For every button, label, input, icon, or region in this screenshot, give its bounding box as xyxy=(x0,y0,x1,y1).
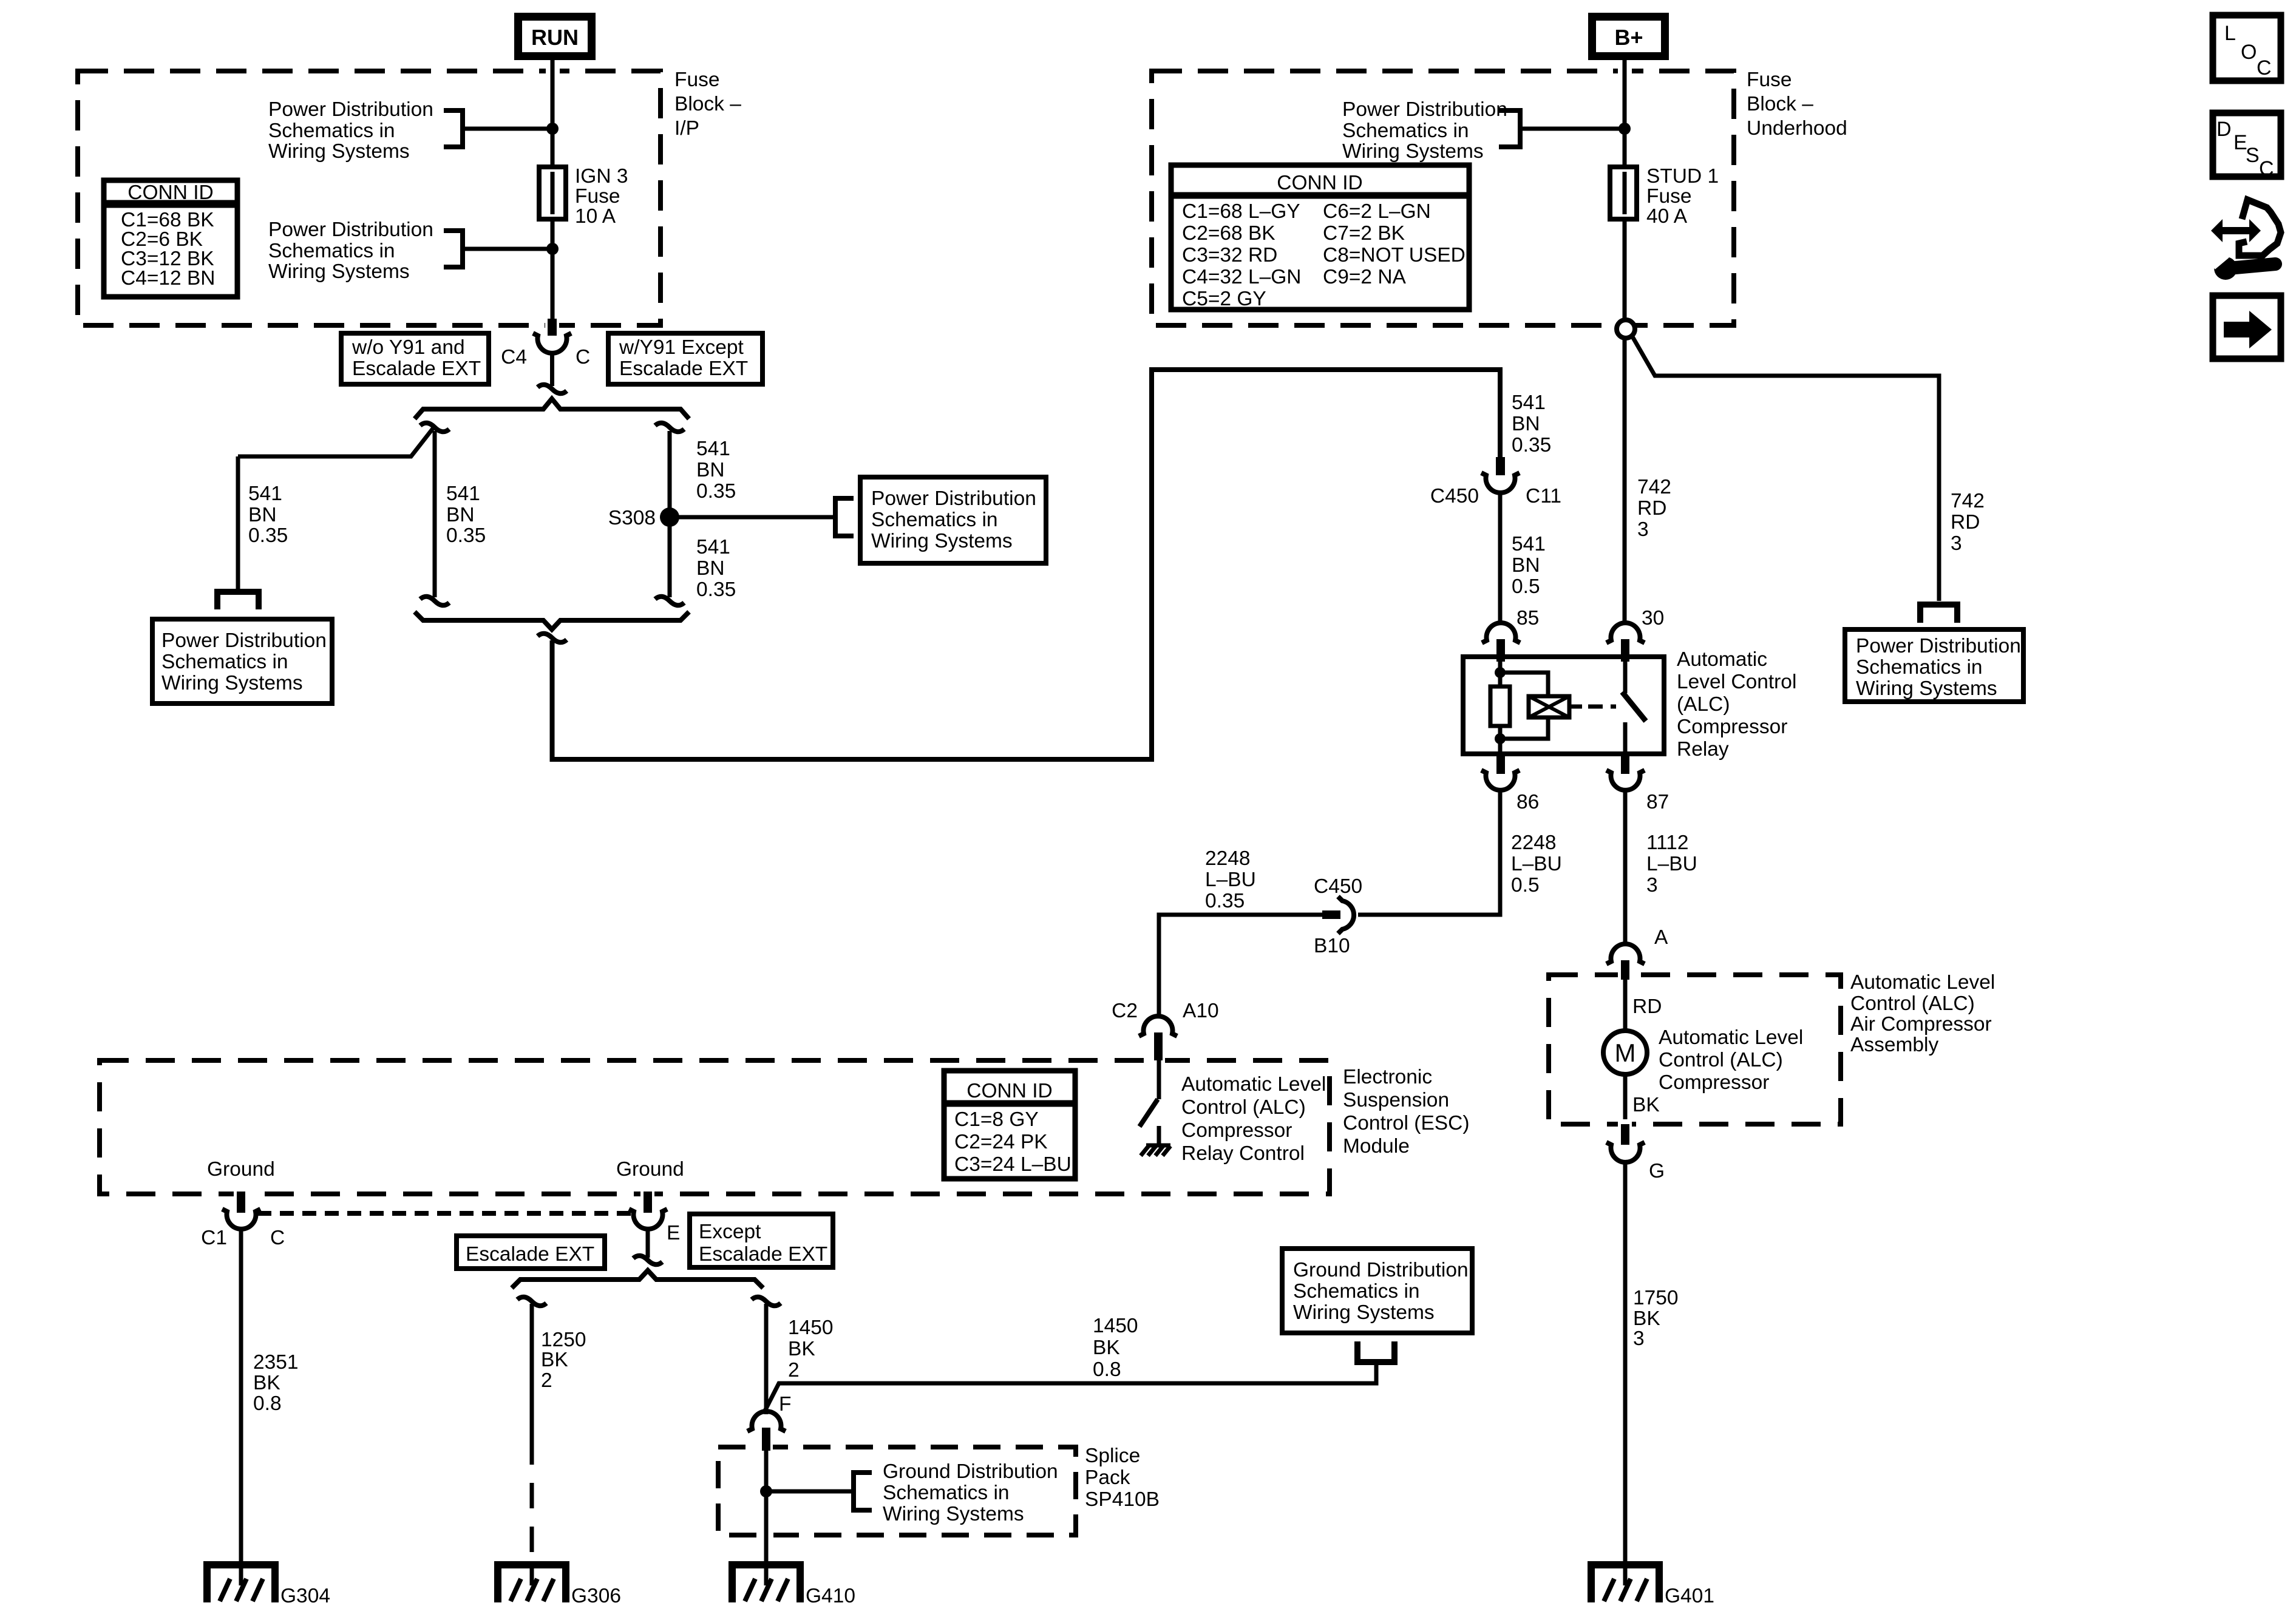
svg-text:2: 2 xyxy=(788,1359,800,1381)
ESC internal switch upper xyxy=(1157,1060,1161,1099)
svg-text:BK: BK xyxy=(1632,1094,1660,1116)
relay pin 87 cup xyxy=(1606,770,1645,790)
svg-text:Module: Module xyxy=(1343,1135,1410,1158)
svg-text:0.35: 0.35 xyxy=(1512,434,1551,456)
svg-text:F: F xyxy=(779,1393,791,1415)
svg-text:10 A: 10 A xyxy=(575,205,616,228)
relay switch upper contact xyxy=(1623,657,1628,693)
node junction dot 2 xyxy=(546,243,559,255)
wire 541 BN long run to C450 xyxy=(552,370,1501,759)
staple pointer to power distribution box xyxy=(217,592,259,609)
svg-text:C7=2 BK: C7=2 BK xyxy=(1323,222,1405,245)
staple pointer to ground distribution box xyxy=(1357,1341,1394,1362)
box ground distribution schematics xyxy=(1282,1249,1472,1333)
ESC internal switch lower stub xyxy=(1157,1126,1161,1145)
svg-text:Control (ALC): Control (ALC) xyxy=(1850,992,1975,1015)
svg-text:Wiring Systems: Wiring Systems xyxy=(871,530,1013,552)
svg-text:Ground: Ground xyxy=(616,1158,684,1181)
reference bracket 1 xyxy=(444,110,463,147)
wave top of 1250 branch xyxy=(517,1297,546,1306)
svg-text:BN: BN xyxy=(696,459,725,481)
connector C450 / B10 cup (open left) xyxy=(1338,897,1354,934)
svg-text:2351: 2351 xyxy=(253,1351,299,1374)
option box w/Y91 Except Escalade EXT xyxy=(608,333,763,384)
wire splice to reference bracket xyxy=(766,1490,851,1494)
svg-text:Relay: Relay xyxy=(1677,738,1729,761)
svg-text:85: 85 xyxy=(1517,607,1539,629)
connector F cup xyxy=(747,1411,786,1431)
svg-text:0.35: 0.35 xyxy=(446,524,486,547)
svg-text:742: 742 xyxy=(1637,476,1671,498)
svg-text:Schematics in: Schematics in xyxy=(1342,120,1469,142)
relay coil actuation stub and dashes xyxy=(1569,705,1582,709)
splice pack SP410B dashed box xyxy=(718,1447,1076,1535)
svg-text:Electronic: Electronic xyxy=(1343,1066,1432,1088)
relay coil branch wire upper xyxy=(1500,662,1548,696)
wire C450 to relay pin 85 xyxy=(1498,492,1503,625)
wire horizontal to far left branch with diagonal xyxy=(238,429,433,456)
wire G down to G401 xyxy=(1623,1162,1628,1565)
wire 1250 BK dashed part xyxy=(530,1439,534,1558)
svg-text:3: 3 xyxy=(1646,874,1658,897)
svg-text:CONN ID: CONN ID xyxy=(966,1080,1052,1102)
power symbol RUN xyxy=(518,17,592,56)
svg-text:(ALC): (ALC) xyxy=(1677,693,1730,716)
svg-text:IGN 3: IGN 3 xyxy=(575,165,628,188)
svg-text:C3=24 L–BU: C3=24 L–BU xyxy=(954,1153,1072,1176)
svg-text:Schematics in: Schematics in xyxy=(1856,656,1983,679)
svg-text:A: A xyxy=(1654,926,1668,949)
connector C2 / A10 stub xyxy=(1151,1056,1165,1065)
connector C4 / C stem wire xyxy=(550,353,554,386)
wire left ladder vertical 541 BN xyxy=(433,431,437,597)
svg-text:SP410B: SP410B xyxy=(1085,1488,1160,1511)
svg-text:40 A: 40 A xyxy=(1646,205,1688,228)
wire RUN to fuse IGN3 xyxy=(546,66,560,76)
svg-text:w/Y91 Except: w/Y91 Except xyxy=(619,336,744,359)
svg-text:2: 2 xyxy=(541,1369,552,1392)
svg-text:541: 541 xyxy=(696,438,730,460)
connector E cup xyxy=(629,1209,667,1229)
svg-text:0.35: 0.35 xyxy=(248,524,288,547)
ESC ground pin C1 stub xyxy=(234,1189,248,1199)
svg-text:Power Distribution: Power Distribution xyxy=(871,487,1036,510)
icon next-page arrow box xyxy=(2213,296,2281,359)
svg-text:Schematics in: Schematics in xyxy=(161,651,288,673)
svg-text:BK: BK xyxy=(1633,1307,1660,1330)
svg-text:Schematics in: Schematics in xyxy=(871,509,998,531)
svg-text:Escalade EXT: Escalade EXT xyxy=(466,1243,594,1266)
svg-text:Power Distribution: Power Distribution xyxy=(268,98,433,121)
svg-text:1750: 1750 xyxy=(1633,1287,1679,1309)
svg-text:Except: Except xyxy=(699,1221,761,1243)
svg-text:G410: G410 xyxy=(806,1585,855,1607)
svg-text:BN: BN xyxy=(1512,413,1540,435)
svg-text:G: G xyxy=(1649,1160,1665,1182)
svg-text:Ground Distribution: Ground Distribution xyxy=(1293,1259,1469,1281)
svg-text:Suspension: Suspension xyxy=(1343,1089,1449,1111)
svg-text:541: 541 xyxy=(1512,392,1546,414)
svg-text:87: 87 xyxy=(1646,791,1669,813)
svg-text:BN: BN xyxy=(696,557,725,580)
relay pin 86 cup xyxy=(1481,770,1520,790)
svg-text:Ground: Ground xyxy=(207,1158,275,1181)
wave top of left ladder branch xyxy=(420,423,449,432)
svg-text:G304: G304 xyxy=(280,1585,330,1607)
svg-text:B10: B10 xyxy=(1314,935,1350,957)
svg-text:I/P: I/P xyxy=(674,117,699,140)
option box Except Escalade EXT xyxy=(690,1214,833,1267)
wave top of 1450 branch xyxy=(752,1297,781,1306)
node open circle below underhood box xyxy=(1617,320,1635,338)
svg-text:Fuse: Fuse xyxy=(674,69,719,91)
splice S308 xyxy=(660,507,679,527)
connector C450 / C11 cup xyxy=(1481,473,1520,493)
icon LOC box xyxy=(2213,15,2281,81)
brace merging two branches below ladder xyxy=(415,612,689,629)
svg-text:M: M xyxy=(1615,1039,1636,1067)
relay pin 30 stub xyxy=(1621,639,1629,662)
svg-text:Wiring Systems: Wiring Systems xyxy=(268,140,410,163)
svg-text:C4: C4 xyxy=(501,346,527,368)
connector C4 / C cup xyxy=(533,333,571,353)
ESC ground pin E stub xyxy=(640,1189,654,1199)
option box Escalade EXT xyxy=(457,1236,605,1269)
ESC internal ground hatch xyxy=(1141,1145,1170,1156)
svg-text:Automatic Level: Automatic Level xyxy=(1850,971,1995,994)
svg-text:541: 541 xyxy=(446,483,480,505)
svg-text:541: 541 xyxy=(248,483,282,505)
svg-text:C4=32 L–GN: C4=32 L–GN xyxy=(1182,266,1301,288)
relay coil box with X xyxy=(1529,696,1569,717)
ESC module dashed box xyxy=(100,1060,1330,1194)
svg-text:Fuse: Fuse xyxy=(1747,69,1792,91)
motor M ALC compressor xyxy=(1603,1031,1647,1074)
svg-text:L: L xyxy=(2224,22,2236,45)
svg-text:3: 3 xyxy=(1951,532,1962,555)
svg-text:Relay Control: Relay Control xyxy=(1181,1142,1305,1165)
svg-text:Compressor: Compressor xyxy=(1677,716,1787,738)
wave bottom of left ladder branch xyxy=(420,597,449,606)
svg-text:C1=8 GY: C1=8 GY xyxy=(954,1108,1039,1131)
svg-text:C450: C450 xyxy=(1314,875,1362,898)
ALC air compressor assembly dashed box xyxy=(1549,975,1841,1124)
svg-text:Power Distribution: Power Distribution xyxy=(1342,98,1507,121)
svg-text:Schematics in: Schematics in xyxy=(268,240,395,262)
wire right ladder vertical 541 BN xyxy=(668,431,672,597)
staple pointer to power distribution box right xyxy=(1920,605,1957,623)
svg-text:Schematics in: Schematics in xyxy=(883,1482,1010,1504)
reference bracket splice pack xyxy=(854,1473,872,1510)
svg-text:RD: RD xyxy=(1632,995,1662,1018)
svg-text:C1=68 L–GY: C1=68 L–GY xyxy=(1182,200,1300,223)
connector A stub xyxy=(1618,970,1632,980)
svg-text:Air Compressor: Air Compressor xyxy=(1850,1013,1992,1036)
svg-text:Block –: Block – xyxy=(1747,93,1813,115)
relay U3 box xyxy=(1463,657,1664,754)
svg-text:541: 541 xyxy=(1512,533,1546,555)
svg-text:742: 742 xyxy=(1951,490,1985,512)
svg-text:C8=NOT USED: C8=NOT USED xyxy=(1323,244,1466,266)
relay junction dot lower xyxy=(1495,733,1506,744)
wire pin 87 down to connector A xyxy=(1623,790,1628,946)
fuse STUD 1 40A xyxy=(1610,167,1637,219)
wire to reference bracket 2 xyxy=(465,247,548,251)
connector E stem xyxy=(646,1229,650,1258)
svg-text:3: 3 xyxy=(1633,1327,1645,1350)
svg-text:C: C xyxy=(270,1227,285,1249)
table CONN ID (fuse block I/P) xyxy=(104,180,237,297)
wire RD to motor xyxy=(1623,980,1628,1031)
svg-text:Escalade EXT: Escalade EXT xyxy=(619,358,748,380)
ground symbol G306 xyxy=(498,1565,566,1602)
svg-text:CONN ID: CONN ID xyxy=(1277,172,1362,194)
svg-text:C6=2 L–GN: C6=2 L–GN xyxy=(1323,200,1431,223)
svg-text:Level Control: Level Control xyxy=(1677,671,1796,693)
svg-text:Underhood: Underhood xyxy=(1747,117,1847,140)
svg-text:Control (ESC): Control (ESC) xyxy=(1343,1112,1470,1134)
connector C2 / A10 cup xyxy=(1139,1016,1177,1036)
relay junction dot upper xyxy=(1495,667,1506,678)
wire C1 down to G304 xyxy=(239,1229,243,1565)
svg-text:Wiring Systems: Wiring Systems xyxy=(1293,1301,1435,1324)
svg-text:BK: BK xyxy=(1093,1337,1120,1359)
ground symbol G410 xyxy=(732,1565,800,1602)
relay pin 30 cup xyxy=(1606,623,1645,643)
svg-text:B+: B+ xyxy=(1614,25,1643,50)
svg-text:C1: C1 xyxy=(201,1227,227,1249)
svg-text:C3=32 RD: C3=32 RD xyxy=(1182,244,1277,266)
box power distribution schematics lower left xyxy=(152,619,332,703)
wire far left vertical drop xyxy=(236,456,240,589)
svg-text:BN: BN xyxy=(446,504,475,526)
svg-text:G401: G401 xyxy=(1665,1585,1714,1607)
svg-text:Block –: Block – xyxy=(674,93,741,115)
relay pin 85 stub xyxy=(1496,639,1505,662)
svg-text:S308: S308 xyxy=(608,507,656,529)
wire pin 86 down and left to C450 B10 xyxy=(1358,790,1500,915)
relay resistor xyxy=(1490,686,1510,726)
reference bracket 2 xyxy=(444,231,463,267)
wave bottom of right ladder branch xyxy=(655,597,684,606)
ground symbol G401 xyxy=(1591,1565,1659,1602)
connector C1 / C cup xyxy=(222,1209,260,1229)
box power distribution schematics right xyxy=(1845,629,2023,702)
relay coil branch wire lower xyxy=(1500,717,1548,754)
svg-text:BN: BN xyxy=(248,504,277,526)
relay switch lower contact xyxy=(1623,722,1628,754)
svg-text:1250: 1250 xyxy=(541,1329,586,1351)
svg-text:L–BU: L–BU xyxy=(1205,869,1256,891)
svg-text:Assembly: Assembly xyxy=(1850,1034,1938,1056)
dotted link between ground connectors xyxy=(257,1211,631,1216)
ESC internal switch blade xyxy=(1140,1099,1158,1127)
svg-text:E: E xyxy=(667,1222,680,1244)
svg-text:2248: 2248 xyxy=(1205,847,1251,870)
connector C450 / C11 stub xyxy=(1496,457,1505,475)
wire S308 to reference bracket xyxy=(670,515,833,520)
fuse block underhood dashed box xyxy=(1152,71,1734,325)
connector C450 / B10 stub xyxy=(1322,910,1340,919)
svg-text:Automatic: Automatic xyxy=(1677,648,1767,671)
svg-text:BK: BK xyxy=(541,1349,568,1371)
wire BK from motor xyxy=(1623,1074,1628,1125)
relay pin 87 stub xyxy=(1621,754,1629,774)
brace splitting C4 into two branches xyxy=(415,399,689,419)
svg-text:w/o Y91 and: w/o Y91 and xyxy=(352,336,465,359)
svg-text:Wiring Systems: Wiring Systems xyxy=(268,260,410,283)
connector C4 / C terminal stub xyxy=(545,320,559,330)
wire fuse to node circle xyxy=(1623,219,1627,320)
svg-text:Control (ALC): Control (ALC) xyxy=(1659,1049,1783,1071)
fuse IGN 3 10A xyxy=(539,167,566,219)
connector G stub xyxy=(1618,1119,1632,1129)
svg-text:0.8: 0.8 xyxy=(1093,1358,1121,1381)
svg-text:Wiring Systems: Wiring Systems xyxy=(1342,140,1484,163)
svg-text:0.35: 0.35 xyxy=(1205,890,1245,912)
svg-text:D: D xyxy=(2216,118,2232,141)
relay switch blade xyxy=(1622,692,1646,721)
svg-text:0.8: 0.8 xyxy=(253,1392,282,1415)
svg-text:Fuse: Fuse xyxy=(1646,185,1691,208)
svg-text:Schematics in: Schematics in xyxy=(1293,1280,1420,1303)
svg-text:RD: RD xyxy=(1637,497,1666,520)
wire diagonal from node to 742 RD right branch xyxy=(1632,336,1939,601)
wire B10 left segment to C2 elbow xyxy=(1159,915,1322,1018)
svg-text:Escalade EXT: Escalade EXT xyxy=(699,1243,827,1266)
svg-text:Automatic Level: Automatic Level xyxy=(1659,1026,1803,1049)
svg-text:Power Distribution: Power Distribution xyxy=(1856,635,2021,657)
svg-text:C: C xyxy=(2257,56,2272,80)
wire 1450 BK 2 down to F xyxy=(764,1304,769,1414)
svg-text:Escalade EXT: Escalade EXT xyxy=(352,358,481,380)
connector F stub xyxy=(759,1442,773,1452)
svg-text:C: C xyxy=(2259,157,2274,180)
svg-text:Fuse: Fuse xyxy=(575,185,620,208)
svg-text:BK: BK xyxy=(788,1338,815,1360)
svg-text:Compressor: Compressor xyxy=(1659,1071,1769,1094)
svg-text:BK: BK xyxy=(253,1372,280,1394)
table CONN ID (fuse block underhood) xyxy=(1171,165,1469,310)
svg-text:Ground Distribution: Ground Distribution xyxy=(883,1460,1058,1483)
svg-text:Wiring Systems: Wiring Systems xyxy=(883,1503,1024,1525)
svg-text:S: S xyxy=(2246,144,2260,167)
svg-text:Splice: Splice xyxy=(1085,1445,1140,1467)
connector G cup xyxy=(1606,1142,1645,1162)
wire to reference bracket B+ xyxy=(1523,127,1620,131)
svg-text:STUD 1: STUD 1 xyxy=(1646,165,1719,188)
ground symbol G304 xyxy=(207,1565,275,1602)
svg-text:C5=2 GY: C5=2 GY xyxy=(1182,288,1266,310)
svg-text:A10: A10 xyxy=(1183,1000,1219,1022)
table CONN ID (ESC) xyxy=(944,1071,1075,1179)
splice junction dot SP410B xyxy=(760,1485,772,1497)
svg-text:C11: C11 xyxy=(1526,485,1561,507)
wave below merge brace xyxy=(538,634,567,643)
power symbol B+ xyxy=(1592,17,1665,56)
connector A cup xyxy=(1606,944,1645,964)
svg-text:Automatic Level: Automatic Level xyxy=(1181,1073,1326,1096)
relay pin 86 stub xyxy=(1496,754,1505,774)
svg-text:3: 3 xyxy=(1637,518,1649,541)
svg-text:1450: 1450 xyxy=(1093,1315,1138,1337)
svg-text:1450: 1450 xyxy=(788,1317,834,1339)
svg-text:0.35: 0.35 xyxy=(696,578,736,601)
svg-text:C2=24 PK: C2=24 PK xyxy=(954,1131,1048,1153)
connector C4 wave xyxy=(538,385,567,394)
svg-text:Pack: Pack xyxy=(1085,1466,1130,1489)
wire B+ to fuse STUD 1 xyxy=(1618,66,1632,76)
wire 1450 BK 0.8 horizontal run xyxy=(764,1364,1376,1413)
icon electrical repair arrow-wrench xyxy=(2209,200,2281,280)
svg-text:G306: G306 xyxy=(571,1585,621,1607)
node junction dot 1 xyxy=(546,123,559,135)
svg-text:1112: 1112 xyxy=(1646,832,1689,854)
svg-text:541: 541 xyxy=(696,536,730,558)
svg-text:C9=2 NA: C9=2 NA xyxy=(1323,266,1407,288)
wire F into splice pack xyxy=(759,1530,773,1540)
svg-text:Wiring Systems: Wiring Systems xyxy=(161,672,303,694)
icon DESC box xyxy=(2213,113,2281,180)
svg-text:C4=12 BN: C4=12 BN xyxy=(121,267,216,290)
wave top of right ladder branch xyxy=(655,423,684,432)
svg-text:2248: 2248 xyxy=(1511,832,1557,854)
reference bracket B+ xyxy=(1499,110,1520,147)
svg-text:Wiring Systems: Wiring Systems xyxy=(1856,677,1997,700)
svg-text:L–BU: L–BU xyxy=(1511,853,1562,875)
fuse block I/P dashed box xyxy=(78,71,661,325)
svg-text:30: 30 xyxy=(1642,607,1664,629)
relay pin 85 cup xyxy=(1482,623,1520,643)
svg-text:C450: C450 xyxy=(1430,485,1479,507)
svg-text:0.5: 0.5 xyxy=(1512,575,1540,598)
wire node circle down to relay pin 30 xyxy=(1623,338,1627,625)
svg-text:Power Distribution: Power Distribution xyxy=(268,219,433,241)
option box w/o Y91 and Escalade EXT xyxy=(341,333,489,384)
svg-text:86: 86 xyxy=(1517,791,1539,813)
box power distribution schematics S308 xyxy=(860,477,1046,563)
wire fuse to connector C4 xyxy=(551,219,555,320)
reference bracket S308 xyxy=(835,498,854,536)
svg-text:RUN: RUN xyxy=(531,25,579,50)
svg-text:0.5: 0.5 xyxy=(1511,874,1540,897)
svg-text:C: C xyxy=(576,346,590,368)
svg-text:L–BU: L–BU xyxy=(1646,853,1697,875)
wire to reference bracket 1 xyxy=(465,127,548,131)
svg-text:CONN ID: CONN ID xyxy=(127,181,213,204)
svg-text:C2=68 BK: C2=68 BK xyxy=(1182,222,1275,245)
wire 1250 BK solid part xyxy=(530,1304,534,1439)
svg-text:Control (ALC): Control (ALC) xyxy=(1181,1096,1306,1119)
svg-text:Compressor: Compressor xyxy=(1181,1119,1292,1142)
svg-text:O: O xyxy=(2241,41,2257,64)
svg-text:Power Distribution: Power Distribution xyxy=(161,629,327,652)
brace splitting E into two ground branches xyxy=(512,1270,763,1288)
svg-text:RD: RD xyxy=(1951,511,1980,534)
svg-text:C2: C2 xyxy=(1112,1000,1138,1022)
wave below connector E xyxy=(633,1256,662,1265)
svg-text:0.35: 0.35 xyxy=(696,480,736,503)
svg-text:Schematics in: Schematics in xyxy=(268,120,395,142)
node junction dot B+ xyxy=(1618,123,1631,135)
svg-text:BN: BN xyxy=(1512,554,1540,577)
